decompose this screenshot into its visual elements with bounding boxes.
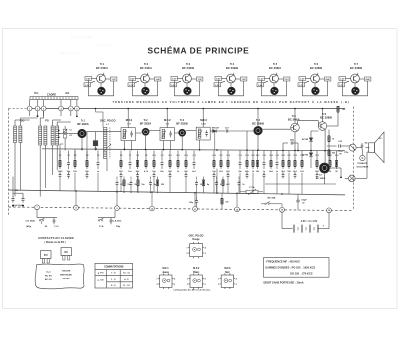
svg-text:4,4V: 4,4V [366, 78, 371, 81]
resistor band1 10k [153, 151, 155, 161]
svg-text:1: 1 [187, 247, 188, 249]
wire Tr.1 emitter down [81, 138, 83, 151]
pcb dashed border right [353, 107, 355, 211]
svg-text:C11: C11 [161, 155, 164, 157]
battery 4.5V [281, 212, 283, 228]
svg-text:C23: C23 [263, 155, 266, 157]
capacitor band2 4µ7 [150, 177, 152, 180]
svg-text:P.U: P.U [44, 254, 48, 257]
resistor band2 220 [157, 177, 159, 180]
svg-text:3: 3 [174, 284, 175, 286]
svg-text:0,7V: 0,7V [172, 79, 177, 81]
svg-text:C15: C15 [193, 155, 196, 157]
svg-text:3: 3 [205, 284, 206, 286]
bottom bus wire [9, 190, 346, 195]
resistor band1 560 [169, 151, 171, 161]
capacitor band1b under 470 [227, 173, 229, 174]
svg-text:1,4V: 1,4V [156, 78, 161, 81]
capacitor band1 1n [263, 151, 265, 161]
svg-text:COMMUTATIONS: COMMUTATIONS [104, 266, 124, 269]
svg-text:C.N. MOD.: C.N. MOD. [25, 221, 36, 223]
output capacitor C34 220uF 6V [327, 145, 337, 147]
resistor band1 560 [316, 151, 318, 161]
svg-text:R9: R9 [145, 155, 147, 157]
capacitor band1 22n [161, 151, 163, 161]
cadre ferrite antenna bar [30, 97, 78, 100]
svg-text:BF 233/A: BF 233/A [140, 66, 152, 70]
capacitor band1b under 470 [120, 173, 122, 174]
svg-text:M.F.2: M.F.2 [193, 267, 200, 270]
wires to loudspeaker [294, 132, 296, 151]
svg-text:10 , 11: 10 , 11 [123, 273, 130, 275]
svg-text:R10: R10 [153, 155, 156, 157]
svg-text:0,7V: 0,7V [299, 85, 304, 87]
svg-text:R8: R8 [137, 155, 139, 157]
svg-text:C5: C5 [97, 155, 99, 157]
resistor band1 82k [137, 151, 139, 161]
frequency information box [264, 258, 330, 278]
svg-text:3: 3 [205, 253, 206, 255]
resistor band2 10n [123, 177, 125, 180]
svg-text:10µF 50µF: 10µF 50µF [13, 205, 23, 207]
capacitor band1b under 10k [213, 173, 215, 174]
transistor Tr.3 voltage measurement figure (BF 233/B) [170, 63, 203, 96]
svg-text:R12: R12 [169, 155, 172, 157]
svg-text:TOUCHE: TOUCHE [62, 271, 71, 273]
svg-text:4,5V = 3 x 1,5V: 4,5V = 3 x 1,5V [301, 220, 318, 223]
svg-text:1,3V: 1,3V [340, 79, 345, 81]
svg-text:TONALITE: TONALITE [357, 162, 368, 165]
svg-text:M.F.1: M.F.1 [163, 267, 170, 270]
loudspeaker LS [369, 143, 375, 153]
capacitor band1b under 39k [86, 173, 88, 174]
svg-text:(42)µ: (42)µ [26, 225, 32, 228]
capacitor C26 220uF [290, 141, 292, 144]
wire riser x75 [74, 149, 76, 159]
resistor band1 470 [120, 151, 122, 161]
svg-text:1,2V: 1,2V [259, 79, 264, 81]
svg-text:C.A.OSC: C.A.OSC [113, 220, 122, 223]
resistor band1 1k [177, 151, 179, 161]
svg-text:PO: PO [45, 120, 49, 123]
capacitor band2 2k2 [130, 177, 132, 180]
capacitor band1b under 2200 [59, 173, 61, 174]
wire Tr.1 collector to MF1 [86, 131, 121, 133]
table COMMUTATIONS [95, 263, 133, 288]
wire detector to Tr.4 base [228, 130, 254, 132]
svg-text:R3: R3 [74, 155, 76, 157]
svg-text:GO 150 _ 270 KCS: GO 150 _ 270 KCS [290, 271, 313, 275]
svg-text:3: 3 [236, 284, 237, 286]
svg-text:La Disposition des MF vue: La Disposition des MF vue de dessous [174, 289, 212, 292]
svg-text:R32: R32 [335, 155, 338, 157]
svg-text:R30: R30 [316, 155, 319, 157]
svg-text:0,6V: 0,6V [130, 79, 135, 81]
transistor Tr.7 (BC 328/B) output [319, 163, 329, 173]
pcb dashed border left [8, 109, 10, 217]
capacitor band1 33n [239, 151, 241, 161]
svg-text:1,3V: 1,3V [300, 79, 305, 81]
earphone jack socket [349, 175, 356, 182]
resistor band1 10k [257, 151, 259, 161]
svg-text:DEBIT SANS PORTEUSE : 10mA: DEBIT SANS PORTEUSE : 10mA [264, 281, 304, 285]
capacitor band1b under 68k [246, 173, 248, 174]
svg-text:M.F.1: M.F.1 [126, 118, 133, 122]
resistor band1 4,7k [145, 151, 147, 161]
svg-text:BF 233/B: BF 233/B [182, 66, 194, 70]
svg-text:||||||| |||| ||| |||| ||: ||||||| |||| ||| |||| || [60, 51, 79, 55]
svg-text:0,9V: 0,9V [216, 79, 221, 81]
transistor Tr.4 voltage measurement figure (BC 309/B) [214, 63, 247, 96]
transistor Tr.7 voltage measurement figure (BC 328/B) [338, 63, 371, 96]
svg-text:2: 2 [218, 284, 219, 286]
capacitor band1 1n [276, 151, 278, 161]
wire riser x60 [59, 144, 61, 159]
svg-text:R29: R29 [301, 155, 304, 157]
bleed-through ghost text [60, 35, 113, 55]
capacitor C51 10uF [12, 177, 14, 197]
svg-text:R14: R14 [185, 154, 188, 157]
capacitor band1 4n7 [193, 151, 195, 161]
capacitor band1b under 560 [316, 173, 318, 174]
svg-text:1,2V: 1,2V [112, 79, 117, 81]
volume potentiometer POT 10k [246, 190, 258, 193]
svg-text:R28: R28 [294, 155, 297, 157]
svg-text:100µ: 100µ [189, 202, 193, 204]
transistor Tr.2 voltage measurement figure (BF 233/A) [128, 63, 161, 96]
svg-text:BF 233/B: BF 233/B [176, 122, 188, 126]
resistor band1 1k5 [301, 151, 303, 161]
svg-text:1,6V: 1,6V [242, 79, 247, 81]
svg-text:SCHÉMA DE PRINCIPE: SCHÉMA DE PRINCIPE [148, 45, 250, 56]
wire riser x87 [86, 132, 88, 159]
wire Tr.3 collector to MF3 [186, 130, 196, 132]
resistor band1 56 [336, 151, 338, 161]
wire Tr.2 collector to MF2 [149, 130, 160, 132]
capacitor band2 100µ [196, 177, 198, 180]
tone switch knob [360, 155, 365, 160]
svg-text:BC 309/B: BC 309/B [226, 66, 238, 70]
svg-text:4: 4 [174, 278, 175, 281]
svg-text:220µ: 220µ [290, 140, 294, 142]
svg-text:1: 1 [157, 279, 158, 281]
svg-text:R26: R26 [282, 155, 285, 157]
svg-text:BC 308/A: BC 308/A [269, 66, 281, 70]
svg-text:1,3V: 1,3V [198, 79, 203, 81]
junction dots under nodes [37, 115, 39, 117]
resistor band1 3k3 [282, 151, 284, 161]
svg-text:INT. M/A: INT. M/A [267, 196, 276, 199]
resistor band1 68k [246, 151, 248, 161]
svg-text:R17: R17 [220, 155, 223, 157]
svg-text:R13: R13 [177, 155, 180, 157]
svg-text:R6: R6 [120, 155, 122, 157]
svg-text:1: 1 [187, 279, 188, 281]
wire MF2 to Tr.3 [175, 132, 179, 134]
resistor band1 1k [252, 151, 254, 161]
wire Tr.7 emitter down [324, 173, 326, 184]
svg-text:BC 328/B: BC 328/B [350, 66, 362, 70]
svg-text:M.F.3: M.F.3 [200, 118, 207, 122]
svg-text:C25: C25 [276, 155, 279, 157]
svg-text:R16: R16 [213, 155, 216, 157]
resistor band1 2k2 [220, 151, 222, 161]
svg-text:BC 328/B: BC 328/B [320, 116, 332, 120]
capacitor band2 1k [238, 177, 240, 180]
capacitor C35 80nF [356, 147, 362, 149]
svg-text:M.F.2: M.F.2 [164, 118, 171, 122]
mid bus wire [42, 149, 345, 151]
svg-text:CONTACTS DU CLAVIER: CONTACTS DU CLAVIER [38, 236, 74, 240]
capacitor band2 47µ [116, 177, 118, 180]
wire Tr.5 to Tr.6 base [297, 121, 299, 125]
connector OC [61, 248, 72, 256]
svg-text:0,6V: 0,6V [258, 85, 263, 87]
capacitor band1b under 10k [153, 173, 155, 174]
svg-text:BC 328/B: BC 328/B [310, 66, 322, 70]
svg-text:2: 2 [157, 284, 158, 286]
svg-text:220: 220 [161, 184, 164, 186]
svg-text:CADRE: CADRE [47, 92, 56, 96]
capacitor band1b under 8k2 [294, 173, 296, 174]
transistor Tr.1 voltage measurement figure (BF 233/A) [84, 63, 117, 96]
svg-text:R21: R21 [252, 155, 255, 157]
svg-text:0,3V: 0,3V [215, 85, 220, 87]
resistor R32 7k bias [328, 130, 330, 136]
connector P.U. [41, 251, 52, 259]
svg-text:( Clavier vu de PO ): ( Clavier vu de PO ) [44, 242, 65, 244]
potentiometer feed resistor [221, 198, 224, 204]
resistor band1 15k [74, 151, 76, 161]
top supply bus wire [29, 108, 345, 110]
svg-text:BF 233/A: BF 233/A [140, 122, 152, 126]
svg-text:OSC. PO.GO: OSC. PO.GO [188, 235, 203, 238]
svg-text:GAMMES D'ONDES : PO 520 _ 1620: GAMMES D'ONDES : PO 520 _ 1620 KCS [265, 265, 315, 269]
pcb dashed border top-left segment [9, 108, 28, 110]
svg-text:C1.A: C1.A [99, 225, 104, 228]
coil tap dots [58, 130, 60, 132]
svg-text:4: 4 [205, 246, 206, 249]
resistor band1 39k [86, 151, 88, 161]
left coil return wires [14, 143, 16, 197]
svg-text:AP. GO: AP. GO [45, 278, 52, 281]
trimmer capacitor C1 [63, 129, 66, 132]
svg-text:11 , 12: 11 , 12 [123, 285, 130, 287]
capacitor band1b under 82k [137, 173, 139, 174]
volume potentiometer P1 5k [349, 144, 356, 151]
resistor band1 22k [185, 151, 187, 161]
wire C34 to volume potentiometer [341, 145, 349, 147]
svg-text:BF 233/A: BF 233/A [77, 122, 89, 126]
resistor band1 470 [227, 151, 229, 161]
resistor band1 5k6 [270, 151, 272, 161]
svg-text:ENFONCÉE: ENFONCÉE [60, 273, 72, 276]
resistor band1 10k [213, 151, 215, 161]
svg-text:4n7: 4n7 [226, 183, 229, 186]
svg-text:4,4V: 4,4V [326, 78, 331, 81]
resistor R30 100 ohm [337, 106, 340, 113]
svg-text:0,6V: 0,6V [86, 79, 91, 81]
svg-text:2: 2 [187, 284, 188, 286]
svg-text:0,1V: 0,1V [129, 85, 134, 87]
svg-text:SFD107: SFD107 [212, 127, 220, 129]
svg-text:C7: C7 [129, 155, 131, 157]
svg-text:4: 4 [236, 278, 237, 281]
electrolytic capacitor C49 100uF [196, 193, 198, 199]
resistor band1 1k [329, 151, 331, 161]
svg-text:0,7V: 0,7V [339, 85, 344, 87]
svg-text:1 - 2: 1 - 2 [111, 279, 116, 281]
svg-text:0,2V: 0,2V [171, 85, 176, 87]
capacitor band1b under 50µ [68, 173, 70, 174]
capacitor C6 [93, 141, 98, 146]
svg-text:0,1V: 0,1V [85, 85, 90, 87]
svg-text:GO: GO [65, 91, 69, 95]
svg-text:4: 4 [205, 278, 206, 281]
svg-text:8µ: 8µ [207, 184, 209, 186]
wire Tr.4 to Tr.5 base [262, 128, 291, 130]
bus wire lower mid [265, 183, 336, 185]
svg-text:R22: R22 [256, 155, 259, 157]
wire MF1 to Tr.2 [136, 132, 142, 134]
svg-text:FREQUENCE MF : 452 KHZ: FREQUENCE MF : 452 KHZ [266, 259, 300, 263]
svg-text:Rouge: Rouge [192, 239, 200, 241]
electrolytic capacitor C50 100uF 9V [297, 194, 299, 198]
capacitor band1 10n [129, 151, 131, 161]
svg-text:100µF: 100µF [301, 200, 307, 202]
resistor band2 8µ [203, 177, 205, 180]
svg-text:BZY88: BZY88 [302, 139, 308, 141]
svg-text:1: 1 [218, 279, 219, 281]
svg-text:P. 10k: P. 10k [249, 187, 255, 189]
svg-text:2,1V: 2,1V [285, 79, 290, 81]
trimmer capacitor C2 [63, 135, 66, 138]
svg-text:C19: C19 [239, 155, 242, 157]
svg-text:|||| ||||||| ||| |||||: |||| ||||||| ||| ||||| [95, 43, 113, 47]
capacitor band1 1n [97, 151, 99, 161]
capacitor band1b under 22k [185, 173, 187, 174]
svg-text:M.F.3: M.F.3 [224, 267, 231, 270]
svg-text:R20: R20 [246, 155, 249, 157]
svg-text:R4: R4 [86, 154, 88, 157]
svg-text:||||| ||| |||||| |||| ||||||: ||||| ||| |||||| |||| |||||| [70, 35, 92, 39]
wire Tr.7 collector [330, 167, 341, 169]
resistor band1 33k [288, 151, 290, 161]
torn paper panel [35, 264, 84, 289]
svg-text:2: 2 [187, 253, 188, 255]
ground return dashed rail with nodes 7-14 [9, 207, 354, 211]
resistor band2 4n7 [222, 177, 224, 180]
resistor band1 8k2 [294, 151, 296, 161]
wire coil to Tr.1 base [59, 133, 78, 135]
transistor Tr.5 voltage measurement figure (BC 308/A) [257, 63, 290, 96]
junction dots on buses [95, 108, 97, 110]
svg-text:R1: R1 [59, 155, 61, 157]
resistor band2 10n [137, 177, 139, 180]
long vertical wire volume feed [216, 169, 218, 193]
svg-text:C2: C2 [68, 155, 70, 157]
resistor R33 560 [328, 142, 330, 150]
svg-text:P.U.: P.U. [34, 91, 39, 95]
capacitor band1b under 560 [169, 173, 171, 174]
svg-text:BC 308/A: BC 308/A [288, 118, 300, 122]
capacitor band1b under 3k3 [282, 173, 284, 174]
capacitor band1b under 1n [263, 173, 265, 174]
svg-text:µ. GO: µ. GO [98, 279, 104, 281]
svg-text:ou non: ou non [63, 278, 71, 280]
svg-text:BF 233/A: BF 233/A [96, 66, 108, 70]
svg-text:R18: R18 [227, 155, 230, 157]
svg-text:R31: R31 [329, 155, 332, 157]
svg-text:R27: R27 [288, 155, 291, 157]
svg-text:OSC. PO.GO: OSC. PO.GO [100, 118, 116, 122]
capacitor band2 0,1µ [216, 177, 218, 180]
svg-text:OC: OC [64, 251, 68, 254]
svg-text:PA. PO: PA. PO [45, 274, 52, 277]
wire Tr.6 emitter down to Tr.7 [324, 129, 326, 163]
capacitor C52 50uF [22, 193, 24, 197]
svg-text:Blanc: Blanc [193, 272, 200, 274]
svg-text:g. PO: g. PO [98, 273, 104, 275]
svg-text:Noir: Noir [225, 272, 230, 274]
resistor band1 2200 [59, 151, 61, 161]
svg-text:le pt: le pt [46, 271, 51, 274]
top bus terminal nodes 1-6 [29, 100, 31, 107]
svg-text:R24: R24 [270, 154, 273, 157]
capacitor band1 50µ [68, 151, 70, 161]
transistor Tr.6 voltage measurement figure (BC 328/B) [298, 63, 331, 96]
svg-text:C51: C51 [15, 190, 18, 192]
